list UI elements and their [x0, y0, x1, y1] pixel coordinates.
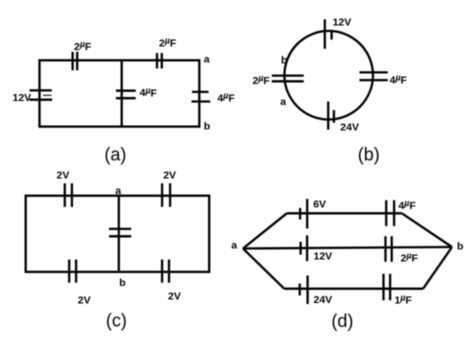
- svg-text:2V: 2V: [57, 170, 70, 182]
- svg-text:24V: 24V: [340, 122, 359, 134]
- svg-text:b: b: [457, 240, 463, 252]
- svg-text:a: a: [231, 239, 237, 251]
- svg-text:(d): (d): [331, 311, 353, 331]
- svg-text:b: b: [119, 277, 125, 289]
- svg-text:(c): (c): [106, 311, 127, 331]
- svg-text:(b): (b): [358, 145, 380, 165]
- svg-text:(a): (a): [104, 145, 126, 165]
- svg-text:12V: 12V: [314, 251, 333, 263]
- svg-text:b: b: [281, 55, 287, 67]
- svg-text:a: a: [115, 185, 121, 197]
- svg-text:2V: 2V: [168, 291, 181, 303]
- svg-text:a: a: [204, 54, 210, 66]
- svg-text:a: a: [280, 96, 286, 108]
- svg-text:2V: 2V: [163, 170, 176, 182]
- svg-text:b: b: [204, 121, 210, 133]
- svg-text:12V: 12V: [333, 16, 352, 28]
- svg-text:12V: 12V: [13, 92, 32, 104]
- svg-text:6V: 6V: [313, 198, 326, 210]
- svg-text:24V: 24V: [314, 294, 333, 306]
- svg-text:2V: 2V: [78, 295, 91, 307]
